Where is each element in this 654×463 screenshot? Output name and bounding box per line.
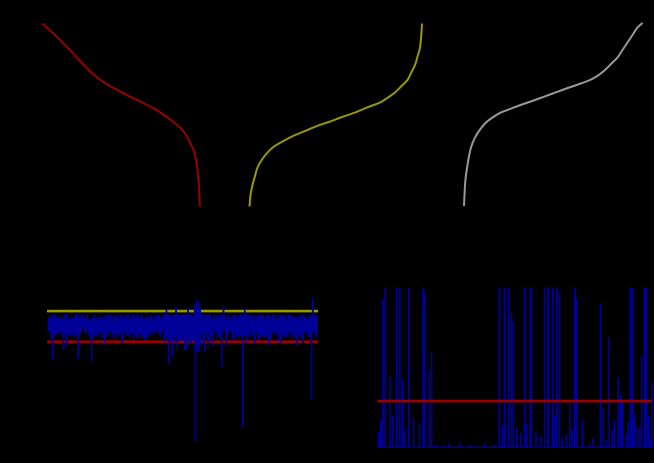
bottom-left: olive upper threshold line <box>47 310 318 313</box>
bottom-right: blue spike train <box>384 288 386 448</box>
top panel: gray sigmoid curve <box>464 23 643 206</box>
bottom-right: red threshold line <box>378 400 653 403</box>
bottom-left: blue signal excursion spikes <box>52 330 54 359</box>
top panel: red titration curve <box>43 24 200 207</box>
bottom-right: blue baseline signal <box>378 443 652 448</box>
bottom-left: blue noisy signal band <box>48 303 318 352</box>
bottom-left: red lower threshold line <box>47 340 318 343</box>
top panel: olive sigmoid curve <box>250 24 423 207</box>
